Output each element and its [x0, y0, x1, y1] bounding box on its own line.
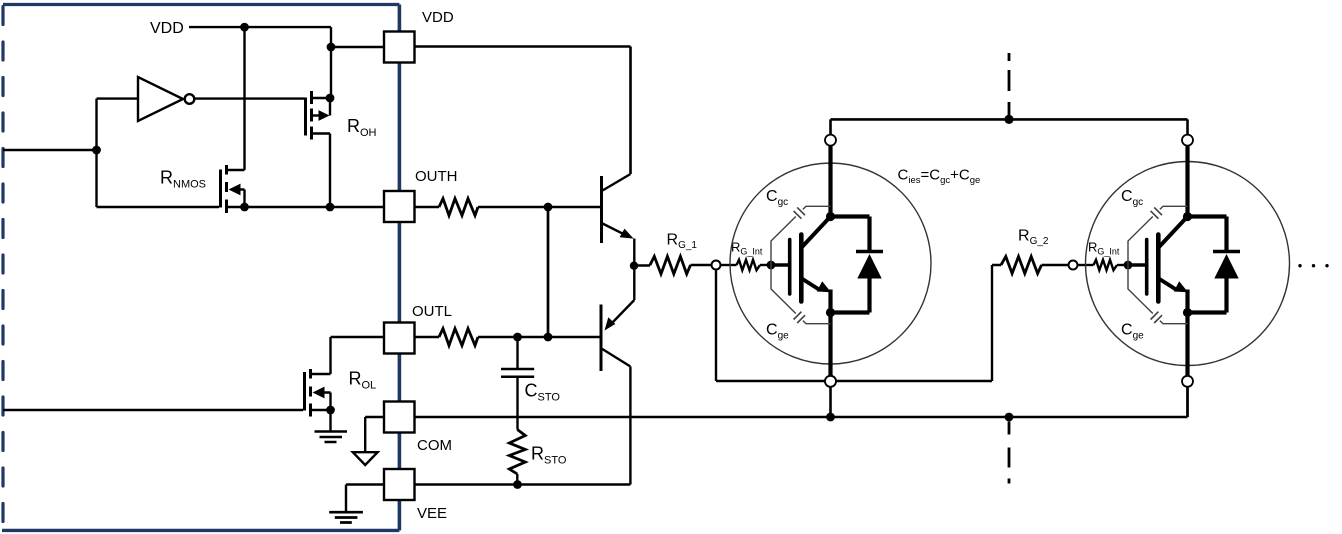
- transistor R_OL bulk arrow: [313, 387, 331, 410]
- junction dot R_STO on VEE rail: [513, 480, 522, 489]
- IGBT2 enclosure circle: [1086, 162, 1290, 366]
- transistor R_OH drain leg: [312, 134, 331, 208]
- label R_NMOS: [160, 168, 206, 191]
- label R_G_2: [1018, 228, 1049, 248]
- capacitor C_STO: [501, 337, 534, 430]
- label R_G_Int 2: [1088, 240, 1120, 257]
- terminal open circle IGBT2 emitter: [1182, 376, 1193, 387]
- wire input line 1 from left border to node A: [3, 149, 97, 151]
- label R_STO: [531, 444, 567, 467]
- wire to R_G_Int 2: [1078, 264, 1093, 266]
- label C_gc 1: [766, 188, 788, 208]
- transistor Q1 NPN base bar: [600, 176, 603, 243]
- capacitor C_ge 2 wire: [1128, 265, 1188, 324]
- label C_ge 2: [1121, 322, 1144, 342]
- dashed continuation top: [1008, 53, 1011, 118]
- terminal open circle gate 1: [712, 261, 721, 270]
- dashed continuation bottom: [1008, 422, 1011, 484]
- label C_gc 2: [1121, 188, 1143, 208]
- wire VDD rail corner down to R_OH source: [330, 27, 332, 98]
- wire bus to IGBT2 collector terminal: [1186, 119, 1189, 134]
- wire R_G_1 from output node: [634, 264, 650, 267]
- IGBT2 collector diagonal: [1159, 217, 1188, 248]
- terminal open circle gate 2: [1069, 261, 1078, 270]
- wire OUTL resistor to PNP base: [478, 336, 600, 338]
- junction dot R_OH drain on OUTH rail: [326, 203, 335, 212]
- pin square OUTH: [384, 191, 415, 222]
- label C_STO: [525, 381, 561, 404]
- label COM pin: [417, 437, 452, 454]
- transistor R_OH bulk arrow: [312, 98, 331, 121]
- ground symbol below R_OL: [315, 410, 348, 442]
- wire R_G_Int 1 to gate: [760, 264, 771, 266]
- label R_G_Int 1: [731, 240, 763, 257]
- capacitor C_gc 2 wire: [1128, 206, 1188, 265]
- junction dot R_OL source: [326, 406, 335, 415]
- resistor R_G_1: [650, 256, 691, 274]
- transistor R_NMOS gate lead: [97, 206, 220, 208]
- driver IC boundary box left dashed border: [1, 7, 4, 529]
- wire VEE pin left stub: [346, 485, 384, 512]
- label VDD pin: [422, 9, 454, 26]
- inverter U1 triangle: [138, 77, 183, 121]
- driver IC boundary box top border: [3, 3, 399, 6]
- ground symbol at VEE: [329, 512, 363, 522]
- wire node A to inverter input: [97, 97, 138, 99]
- terminal open circle IGBT1 emitter redraw on aux line: [825, 376, 836, 387]
- junction dot dashed link on COM rail: [1005, 413, 1014, 422]
- wire OUTL pin to resistor: [415, 336, 440, 338]
- node A junction dot: [92, 146, 101, 155]
- transistor Q1 NPN collector: [603, 174, 631, 191]
- wire IGBT1 emitter terminal to COM rail: [829, 387, 832, 417]
- wire VDD internal rail: [189, 26, 331, 28]
- diode D2 cathode bar: [1213, 250, 1240, 254]
- diode D1 leads: [831, 217, 870, 313]
- svg-text:VDD: VDD: [150, 20, 184, 37]
- IGBT2 emitter junction dot: [1183, 308, 1192, 317]
- transistor R_OL drain leg: [311, 337, 331, 374]
- wire IGBT2 emitter terminal to COM rail: [1186, 387, 1189, 417]
- label R_OL: [349, 369, 377, 392]
- COM ground arrow symbol: [353, 452, 378, 465]
- junction dot top bus: [1004, 115, 1013, 124]
- driver IC boundary box bottom border: [2, 529, 399, 532]
- diode D1 triangle: [857, 254, 881, 279]
- capacitor C_ge 2 plates: [1151, 312, 1162, 323]
- IGBT2 gate bar: [1145, 240, 1149, 295]
- wire COM rail: [415, 387, 1188, 417]
- pin square COM: [384, 402, 415, 433]
- wire COM pin left stub: [365, 417, 384, 451]
- transistor Q2 PNP collector: [602, 349, 631, 485]
- wire VDD pin to internal vertical: [331, 46, 384, 48]
- junction dot R_NMOS source: [240, 203, 249, 212]
- junction dot VDD pin wire: [327, 43, 336, 52]
- junction dot IGBT2 gate: [1124, 261, 1133, 270]
- wire inverter output to R_OH gate: [195, 97, 305, 99]
- transistor Q1 NPN emitter with arrow: [603, 224, 635, 266]
- transistor R_OL gate lead from left border: [3, 409, 303, 411]
- diode D2 triangle: [1214, 254, 1238, 279]
- label R_G_1: [667, 232, 698, 252]
- label VEE pin: [417, 505, 447, 522]
- transistor R_NMOS body dashes: [225, 165, 228, 213]
- transistor R_NMOS drain leg: [227, 169, 245, 171]
- terminal open circle IGBT1 emitter: [825, 376, 836, 387]
- resistor R_G_Int 2: [1094, 260, 1118, 270]
- IGBT1 collector junction dot: [826, 212, 835, 221]
- terminal open circle IGBT1 collector: [825, 135, 836, 146]
- junction dot IGBT1 gate: [767, 261, 776, 270]
- junction dot OUTL/vertical node: [544, 333, 553, 342]
- wire to R_G_Int 1: [721, 264, 736, 266]
- wire OUTH resistor to NPN base: [478, 206, 600, 208]
- IGBT1 body bar: [799, 235, 804, 302]
- transistor Q2 PNP base bar: [600, 305, 603, 372]
- transistor Q2 PNP emitter with arrow: [605, 266, 635, 331]
- IGBT1 emitter junction dot: [826, 308, 835, 317]
- capacitor C_gc 1 plates: [794, 207, 805, 218]
- terminal open circle IGBT2 collector: [1182, 135, 1193, 146]
- capacitor C_gc 2 plates: [1151, 207, 1162, 218]
- transistor R_OL source leg: [311, 409, 331, 411]
- junction dot R_OH source: [326, 94, 335, 103]
- svg-text:VEE: VEE: [417, 505, 447, 522]
- resistor R_STO: [509, 430, 525, 485]
- junction dot VDD rail / NMOS drain: [240, 23, 249, 32]
- wire R_NMOS drain to VDD rail: [243, 27, 245, 170]
- wire OUTH pin to resistor: [415, 206, 440, 208]
- svg-text:OUTL: OUTL: [412, 303, 452, 320]
- transistor R_OL body dashes: [309, 369, 312, 417]
- capacitor C_ge 1 wire: [771, 265, 831, 324]
- transistor R_NMOS gate bar: [219, 170, 222, 208]
- transistor R_OH body dashes: [310, 91, 313, 140]
- junction dot totem output node: [630, 262, 638, 270]
- junction dot C_STO tap: [513, 333, 522, 342]
- junction dot OUTH/base node: [544, 203, 553, 212]
- IGBT2 main vertical: [1185, 145, 1189, 376]
- svg-text:COM: COM: [417, 437, 452, 454]
- label OUTH pin: [415, 168, 458, 185]
- IGBT2 collector junction dot: [1183, 212, 1192, 221]
- capacitor C_ge 1 plates: [794, 312, 805, 323]
- wire node A vertical: [95, 99, 97, 207]
- junction dot IGBT1 emitter on COM rail: [826, 413, 835, 422]
- IGBT2 gate lead: [1128, 263, 1147, 266]
- IGBT1 gate bar: [788, 240, 792, 295]
- svg-text:VDD: VDD: [422, 9, 454, 26]
- wire top bus: [831, 118, 1188, 121]
- driver IC boundary box right border: [398, 5, 402, 531]
- resistor on OUTH line: [439, 199, 478, 216]
- IGBT1 collector diagonal: [802, 217, 831, 248]
- label OUTL pin: [412, 303, 452, 320]
- IGBT2 body bar: [1156, 235, 1161, 302]
- resistor R_G_Int 1: [737, 260, 761, 270]
- transistor R_NMOS bulk arrow: [229, 184, 245, 207]
- wire R_G_Int 2 to gate: [1117, 264, 1128, 266]
- IGBT1 emitter diagonal with arrow: [803, 279, 832, 292]
- pin square OUTL: [384, 323, 415, 354]
- transistor R_OH source leg: [312, 97, 331, 99]
- resistor on OUTL line: [439, 329, 478, 346]
- wire bus to IGBT1 collector terminal: [829, 119, 832, 134]
- wire R_G_2 to terminal circle: [1042, 264, 1068, 266]
- label R_OH: [347, 116, 377, 139]
- resistor R_G_2: [1001, 257, 1042, 274]
- label VDD internal: [150, 20, 184, 37]
- wire aux connection from terminal down and right: [716, 265, 1001, 381]
- wire OUTH node down to OUTL node: [547, 207, 550, 337]
- capacitor C_gc 1 wire: [771, 206, 831, 265]
- inverter U1 output bubble: [185, 94, 195, 104]
- IGBT1 main vertical: [828, 145, 832, 376]
- wire VEE rail: [415, 483, 631, 485]
- pin square VDD: [384, 32, 415, 63]
- IGBT2 emitter diagonal with arrow: [1160, 279, 1189, 292]
- diode D2 leads: [1188, 217, 1227, 313]
- diode D1 cathode bar: [856, 250, 883, 254]
- wire R_G_1 to terminal circle: [691, 264, 711, 266]
- ellipsis continuation dots: [1298, 264, 1328, 267]
- transistor R_OL gate bar: [303, 372, 306, 411]
- IGBT1 gate lead: [771, 263, 790, 266]
- wire OUTL pin to R_OL drain: [331, 336, 385, 338]
- wire OUTH internal rail: [227, 206, 385, 208]
- pin square VEE: [384, 469, 415, 500]
- wire VDD pin to NPN collector: [415, 47, 631, 175]
- IGBT1 enclosure circle: [730, 163, 931, 364]
- svg-text:OUTH: OUTH: [415, 168, 458, 185]
- label C_ge 1: [766, 322, 789, 342]
- transistor R_OH gate bar: [304, 98, 307, 136]
- label C_ies equation: [898, 167, 981, 187]
